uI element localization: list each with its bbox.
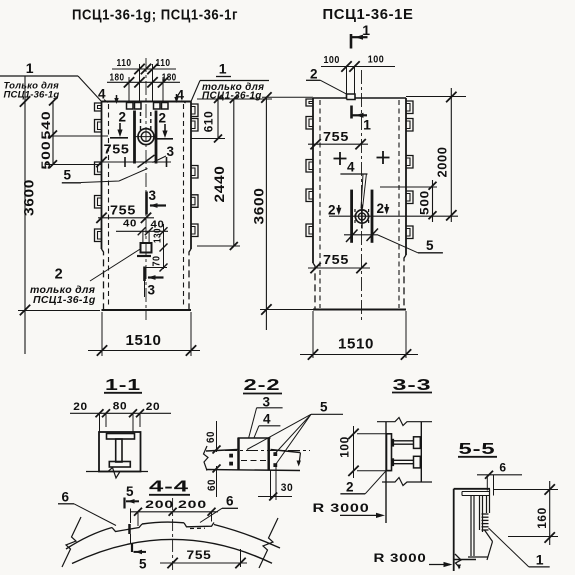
mark 2 right-panel-left arrow xyxy=(338,205,340,212)
svg-text:755: 755 xyxy=(187,548,212,562)
section 4-4 right break xyxy=(259,518,278,568)
dim 100 100 line xyxy=(321,66,395,68)
ext line bottom left xyxy=(18,310,100,312)
section 5-5 taper xyxy=(485,530,493,542)
callout 5 s22 leaders xyxy=(247,414,311,449)
mark 2 upper-left arrow xyxy=(119,123,121,133)
section 2-2 left break xyxy=(204,446,209,471)
section 1-1 I-beam web xyxy=(116,439,122,462)
ext line top right xyxy=(197,98,272,100)
svg-text:2: 2 xyxy=(328,203,336,218)
section 3-3 top break line xyxy=(377,418,432,426)
mark 2 upper-right arrow xyxy=(164,124,166,134)
section 3-3 wall left face xyxy=(385,422,387,523)
section 2-2 box xyxy=(237,438,240,470)
svg-text:2: 2 xyxy=(346,480,354,495)
svg-text:540: 540 xyxy=(41,111,53,140)
section 3-3 ext lines xyxy=(357,433,391,435)
callout 1 s55 leader xyxy=(489,528,529,567)
svg-text:2: 2 xyxy=(376,201,384,216)
right panel left edge lower dashed xyxy=(313,263,315,310)
bar slash right xyxy=(367,229,379,242)
svg-text:4-4: 4-4 xyxy=(149,479,189,496)
right panel inner dashed line right xyxy=(398,100,400,308)
svg-text:180: 180 xyxy=(110,72,125,84)
section 2-2 bolt dots xyxy=(229,454,233,458)
svg-text:4: 4 xyxy=(98,87,106,102)
right panel bottom edge xyxy=(313,309,406,311)
svg-text:2: 2 xyxy=(118,110,126,125)
right panel left edge upper xyxy=(312,98,314,263)
right panel right edge upper xyxy=(405,98,407,255)
svg-text:60: 60 xyxy=(205,431,217,443)
svg-text:1: 1 xyxy=(219,61,227,77)
svg-text:755: 755 xyxy=(110,204,136,218)
svg-text:3: 3 xyxy=(148,188,156,203)
svg-text:60: 60 xyxy=(206,479,218,491)
left panel small arrow down left xyxy=(116,95,118,102)
section 5-5 groove verticals xyxy=(470,496,472,557)
svg-text:3600: 3600 xyxy=(21,179,37,216)
svg-text:2000: 2000 xyxy=(435,147,450,178)
callout 1 right leader xyxy=(200,80,269,82)
svg-text:100: 100 xyxy=(323,54,340,66)
left panel lifting hole circle xyxy=(138,129,154,145)
left panel top edge xyxy=(102,101,192,103)
dim 755 upper line xyxy=(98,161,171,163)
section 1-1 blockout box xyxy=(99,432,141,472)
left panel left edge upper xyxy=(101,102,103,250)
section 3-3 dim 100 xyxy=(353,426,355,478)
svg-text:110: 110 xyxy=(117,57,132,69)
section 2-2 band top right xyxy=(271,450,301,453)
svg-text:ПСЦ1-36-1g; ПСЦ1-36-1г: ПСЦ1-36-1g; ПСЦ1-36-1г xyxy=(72,8,238,24)
bars bottom line xyxy=(344,234,378,236)
section 4-4 centerline xyxy=(172,498,174,570)
section 4-4 cut hatch left notch xyxy=(128,524,131,534)
callout 5 right leader xyxy=(378,235,418,253)
left panel inner dashed line left xyxy=(108,104,110,308)
dim 3600 mid line xyxy=(265,97,267,330)
dim 40 40 line xyxy=(116,230,168,232)
dim 755 s44 line xyxy=(160,562,247,564)
svg-text:ПСЦ1-36-1Е: ПСЦ1-36-1Е xyxy=(323,7,414,23)
svg-text:180: 180 xyxy=(162,72,177,84)
callout 1 left leader xyxy=(0,75,78,77)
dim 500 line xyxy=(52,135,54,165)
callout 3 leader xyxy=(153,156,167,163)
section 3-3 wall right face xyxy=(420,422,422,482)
svg-text:20: 20 xyxy=(146,401,161,413)
section 4-4 right notch xyxy=(184,523,214,527)
weld tick below square xyxy=(137,255,151,257)
section 3-3 anchor plate xyxy=(387,434,392,471)
section 5-5 top edge inner lines xyxy=(462,491,490,493)
section 1-1 dim line xyxy=(70,412,171,414)
left panel left edge notches xyxy=(95,103,102,111)
callout 3 s22 leader xyxy=(249,408,257,438)
left panel small arrow down right xyxy=(176,94,178,101)
right panel inner dashed line left xyxy=(319,100,321,308)
svg-text:130: 130 xyxy=(153,228,164,243)
dim 755 lower line xyxy=(98,217,154,219)
left panel bottom edge xyxy=(102,309,192,311)
dim 6 line xyxy=(477,474,522,476)
dim 1510 right ext lines xyxy=(312,311,314,358)
svg-text:3600: 3600 xyxy=(251,188,267,225)
section 5-5 top edge xyxy=(454,488,490,490)
section 2-2 right end arrow xyxy=(299,453,301,465)
svg-text:5: 5 xyxy=(126,484,134,499)
plus tick a xyxy=(124,157,126,167)
dim 2000 line xyxy=(450,88,452,222)
dim 130 line xyxy=(163,224,165,252)
mark 2 right-panel-right arrow xyxy=(386,204,388,211)
section 2-2 inner dashed xyxy=(241,460,266,462)
dim 2440 line xyxy=(233,99,235,246)
dim 540 line xyxy=(52,102,54,135)
svg-text:70: 70 xyxy=(152,256,163,267)
section 1-1 ext lines xyxy=(99,413,101,431)
dim 755 center slash xyxy=(138,155,155,168)
svg-text:6: 6 xyxy=(226,494,234,509)
right panel channel bar left xyxy=(350,190,353,243)
right panel right edge lower dashed xyxy=(404,255,406,310)
left panel inner dashed line right xyxy=(183,104,185,308)
section 3-3 bolt 1 xyxy=(392,440,415,442)
dim 755 s44 ext xyxy=(240,549,242,567)
left panel right edge notches xyxy=(191,104,198,117)
dim 60 lower xyxy=(216,466,218,497)
callout 4 leaders xyxy=(361,174,363,209)
ext line 2440 bottom xyxy=(197,245,240,247)
left panel hidden dashes near bars xyxy=(140,112,142,131)
dim 200 ext lines xyxy=(137,512,139,526)
svg-text:2-2: 2-2 xyxy=(244,377,281,394)
section 3-3 bottom break line xyxy=(382,478,432,486)
embed square detail xyxy=(141,243,152,253)
svg-text:40: 40 xyxy=(123,218,137,230)
right panel right edge notches xyxy=(406,101,413,114)
dim 500 right line xyxy=(432,180,434,222)
right panel channel bar right xyxy=(371,190,374,243)
right panel left edge notches xyxy=(306,99,313,106)
section 5-5 bottom edges xyxy=(454,559,476,561)
svg-text:5: 5 xyxy=(139,557,147,572)
svg-text:610: 610 xyxy=(204,111,216,133)
callout 2 bottom leader xyxy=(90,249,141,282)
svg-text:1510: 1510 xyxy=(338,336,374,353)
svg-text:30: 30 xyxy=(281,482,294,494)
dim 160 line xyxy=(549,481,551,545)
ext line 70 bottom xyxy=(146,267,167,269)
dim 610 line xyxy=(217,99,219,139)
callout 4 s22 leader xyxy=(254,426,259,438)
callout 6 right leader xyxy=(200,508,222,522)
section 1-1 I-beam bottom flange xyxy=(109,462,130,468)
left panel right edge lower dashed xyxy=(189,249,191,310)
ext line 2000 top xyxy=(406,96,466,98)
ext line 500 top right xyxy=(380,186,437,188)
slot vertical lines xyxy=(142,231,144,243)
ext line right panel bottom left xyxy=(260,309,313,311)
callout 6 left leader xyxy=(74,504,116,526)
svg-text:6: 6 xyxy=(61,490,69,505)
right panel centerline xyxy=(361,70,363,320)
svg-text:200: 200 xyxy=(178,499,207,511)
section 5 cut mark top xyxy=(123,498,125,509)
svg-text:3: 3 xyxy=(147,283,155,298)
left panel channel bar right xyxy=(155,111,158,164)
dim 755 right-lower line xyxy=(308,267,370,269)
dim 30 xyxy=(270,470,272,501)
section 1-1 bottom break xyxy=(86,468,148,479)
ext line right panel top left xyxy=(262,96,313,98)
section 5-5 bottom break xyxy=(455,554,461,568)
section 3-3 bolt 2 xyxy=(392,459,415,461)
svg-text:4: 4 xyxy=(176,88,184,103)
dim 1510 left ext lines xyxy=(101,312,103,356)
section mark 1 top xyxy=(350,34,353,49)
callout 5 left leader xyxy=(81,169,148,183)
svg-text:100: 100 xyxy=(368,54,385,66)
svg-text:20: 20 xyxy=(73,401,88,413)
svg-text:5-5: 5-5 xyxy=(459,441,496,458)
svg-text:6: 6 xyxy=(499,461,506,475)
svg-text:3: 3 xyxy=(166,144,174,159)
svg-text:2440: 2440 xyxy=(211,166,227,203)
svg-text:1: 1 xyxy=(363,117,371,133)
dim 70 line xyxy=(163,252,165,269)
dim 100 ext lines xyxy=(346,67,348,95)
svg-text:3-3: 3-3 xyxy=(393,377,432,394)
section 4-4 outer arc xyxy=(66,528,112,550)
svg-text:110: 110 xyxy=(156,57,171,69)
left panel right edge upper xyxy=(190,102,192,250)
svg-text:500: 500 xyxy=(41,141,53,170)
svg-text:5: 5 xyxy=(320,400,328,415)
dim 1510 right line xyxy=(300,354,418,356)
svg-text:80: 80 xyxy=(113,401,128,413)
callout 2 s33 leader xyxy=(365,471,386,494)
plus tick b xyxy=(166,157,168,167)
svg-text:ПСЦ1-36-1g: ПСЦ1-36-1g xyxy=(33,294,96,306)
svg-text:2: 2 xyxy=(55,267,64,283)
dim 160 ext lines xyxy=(494,489,558,491)
section 1-1 I-beam top flange xyxy=(107,434,135,440)
svg-text:200: 200 xyxy=(145,499,174,511)
dim 1510 left line xyxy=(88,350,200,352)
svg-text:5: 5 xyxy=(426,238,434,253)
svg-text:1: 1 xyxy=(362,22,370,38)
svg-text:160: 160 xyxy=(537,507,549,529)
left panel channel bar left xyxy=(133,111,136,164)
svg-text:1: 1 xyxy=(26,60,34,76)
ext line 540 level xyxy=(48,135,108,137)
left panel centerline xyxy=(145,58,147,320)
dim 3600 left line xyxy=(24,76,26,354)
level ext line through hole xyxy=(329,215,458,217)
section 2-2 centerline xyxy=(225,450,310,452)
dim 180 180 line xyxy=(107,81,180,83)
dim 110 110 line xyxy=(112,68,176,70)
callout 2 top leader xyxy=(320,80,347,94)
svg-text:5: 5 xyxy=(63,168,71,183)
svg-text:2: 2 xyxy=(158,111,166,126)
section 2-2 band top left xyxy=(206,450,238,452)
plus mark right xyxy=(377,157,390,159)
section mark 3 lower xyxy=(143,267,146,282)
svg-text:R 3000: R 3000 xyxy=(374,551,427,565)
svg-text:755: 755 xyxy=(104,143,130,157)
bar slash left xyxy=(346,230,358,243)
svg-text:4: 4 xyxy=(347,160,355,175)
svg-text:755: 755 xyxy=(323,253,349,267)
svg-text:2: 2 xyxy=(310,67,318,82)
dim 755 right-upper line xyxy=(308,143,368,145)
ext line 610 bottom xyxy=(191,138,225,140)
right panel lifting hole circle xyxy=(355,210,368,223)
section 5-5 outer left face xyxy=(453,489,455,571)
section 4-4 inner arc xyxy=(72,539,272,563)
dim 60 upper xyxy=(216,421,218,452)
dim 200 200 line xyxy=(130,511,218,513)
svg-text:1-1: 1-1 xyxy=(105,377,141,394)
dim extension lines top xyxy=(139,64,141,102)
section 5-5 rib marks xyxy=(482,513,489,515)
left panel top lifting recesses xyxy=(127,103,134,110)
left panel left edge lower dashed xyxy=(102,249,104,310)
svg-text:1510: 1510 xyxy=(126,332,162,349)
svg-text:1: 1 xyxy=(536,552,544,568)
svg-text:100: 100 xyxy=(340,436,352,458)
svg-text:R 3000: R 3000 xyxy=(313,501,370,515)
plus mark left xyxy=(334,158,347,160)
svg-text:4: 4 xyxy=(263,412,271,427)
section 5 cut mark bottom xyxy=(131,544,133,553)
section 2-2 band bottom xyxy=(206,470,300,471)
section mark 1 inner xyxy=(350,106,353,119)
svg-text:ПСЦ1-36-1g: ПСЦ1-36-1g xyxy=(4,90,60,101)
section 4-4 right notch dashes xyxy=(190,527,205,529)
svg-text:500: 500 xyxy=(420,190,432,215)
section 4-4 left break xyxy=(62,517,81,567)
svg-text:755: 755 xyxy=(323,130,349,144)
right panel top edge xyxy=(313,94,406,100)
ext line 500 level xyxy=(46,164,100,166)
section 4-4 left notch xyxy=(112,524,142,532)
